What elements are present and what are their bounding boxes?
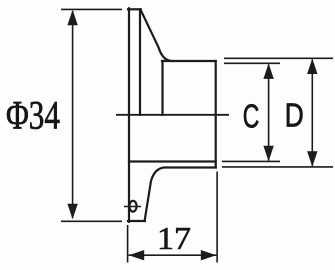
node arrow phi34 up (67, 10, 77, 25)
node hole circle (129, 201, 136, 212)
wire ext top phi34 (61, 8, 122, 10)
wire cylinder right edge (215, 61, 217, 168)
node arrow D down (307, 151, 317, 167)
wire top slope curve (141, 10, 172, 61)
svg-text:17: 17 (157, 221, 191, 256)
wire ext bottom phi34 (61, 220, 122, 222)
node arrow phi34 down (67, 204, 77, 220)
node arrow 17 right (201, 250, 217, 260)
wire flange bottom edge (128, 220, 145, 222)
node arrow 17 left (129, 250, 145, 260)
wire dim line phi34 (72, 11, 74, 218)
svg-text:Φ34: Φ34 (6, 92, 60, 137)
wire ext 17 right (216, 172, 218, 263)
wire flange left face (128, 8, 130, 221)
wire dim line C (268, 65, 270, 161)
wire cylinder top (162, 60, 216, 62)
wire dim line 17 (129, 254, 217, 256)
wire centerline axis (116, 114, 229, 116)
node arrow C down (263, 146, 273, 162)
wire ext 17 left (127, 225, 129, 263)
wire ext C top (224, 62, 280, 64)
wire dim line D (311, 60, 313, 167)
node arrow D up (307, 59, 317, 75)
svg-text:C: C (243, 98, 259, 135)
svg-text:D: D (285, 97, 304, 134)
wire ext D top (224, 57, 333, 59)
wire ext C bottom (222, 160, 280, 162)
wire bottom outer contour (145, 168, 216, 221)
wire bore bottom (129, 160, 216, 162)
wire flange top edge (128, 8, 141, 10)
wire ext D bottom (222, 166, 333, 168)
wire hole center tick (124, 206, 141, 208)
wire tangent vertical (161, 61, 163, 115)
wire flange right face (139, 9, 141, 115)
node arrow C up (263, 63, 273, 79)
